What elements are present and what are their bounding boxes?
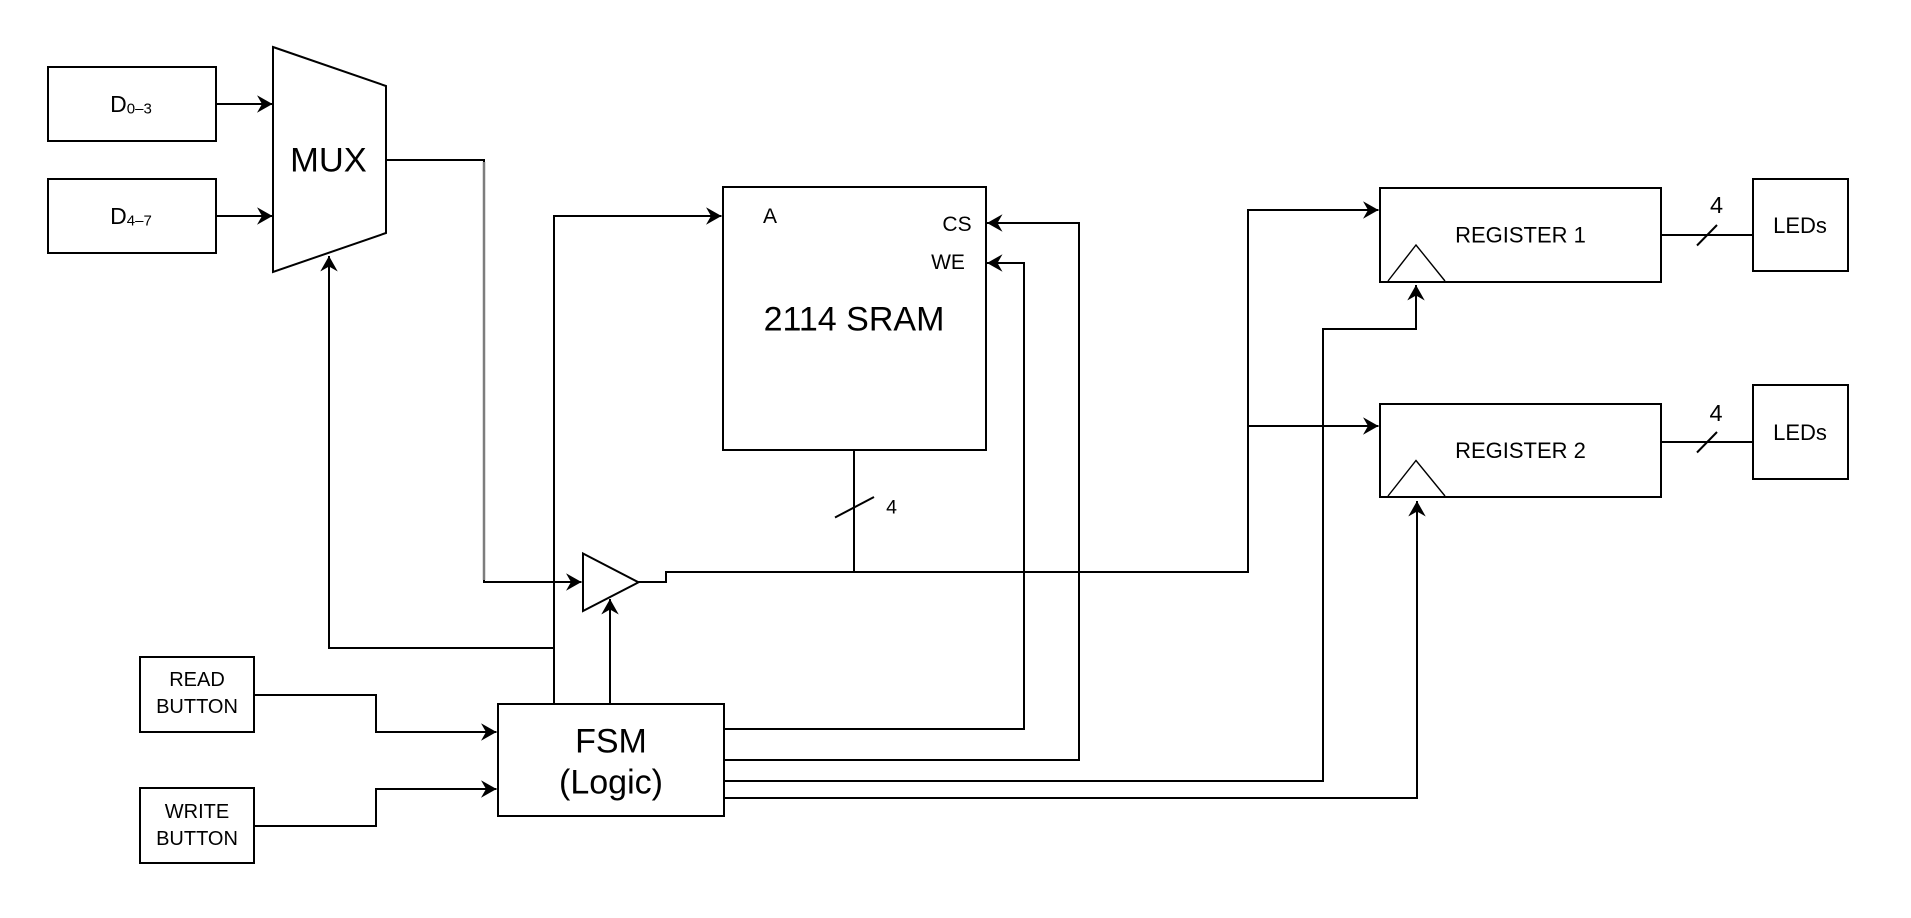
box LEDs (bottom) xyxy=(1753,385,1848,479)
wire data bus branch to REGISTER 2 xyxy=(1248,425,1379,427)
bus width slash on REGISTER 2 LED wire xyxy=(1697,432,1717,453)
svg-text:MUX: MUX xyxy=(290,142,367,180)
box LEDs (top) xyxy=(1753,179,1848,271)
wire MUX select (from FSM address line) xyxy=(329,256,554,648)
svg-text:A: A xyxy=(763,205,777,228)
box FSM (Logic) xyxy=(498,704,724,816)
wire REGISTER 1 to LEDs xyxy=(1661,234,1753,236)
svg-text:BUTTON: BUTTON xyxy=(156,828,238,850)
svg-text:CS: CS xyxy=(942,213,971,236)
svg-text:WRITE: WRITE xyxy=(165,801,229,823)
wire D0-3 to MUX xyxy=(216,103,273,105)
register REGISTER 2 xyxy=(1380,404,1661,497)
box D0-3 xyxy=(48,67,216,141)
bus width slash on SRAM data wire xyxy=(835,497,874,518)
wire REGISTER 2 to LEDs xyxy=(1661,441,1753,443)
svg-text:LEDs: LEDs xyxy=(1773,213,1827,238)
wire FSM to REGISTER 2 clock xyxy=(724,501,1417,798)
wire READ BUTTON to FSM xyxy=(254,695,497,732)
svg-text:4: 4 xyxy=(886,497,897,519)
svg-text:REGISTER 2: REGISTER 2 xyxy=(1455,438,1586,463)
wire FSM to REGISTER 1 clock xyxy=(724,285,1416,781)
box WRITE BUTTON xyxy=(140,788,254,863)
wire WRITE BUTTON to FSM xyxy=(254,789,497,826)
wire FSM to SRAM address A xyxy=(554,216,722,704)
gray vertical segment of MUX output wire xyxy=(483,162,486,580)
register REGISTER 1 xyxy=(1380,188,1661,282)
box D4-7 xyxy=(48,179,216,253)
svg-text:(Logic): (Logic) xyxy=(559,764,663,802)
bus width slash on REGISTER 1 LED wire xyxy=(1697,225,1717,246)
tri-state buffer U1 xyxy=(583,554,639,612)
box READ BUTTON xyxy=(140,657,254,732)
wire D4-7 to MUX xyxy=(216,215,273,217)
svg-text:FSM: FSM xyxy=(575,723,647,761)
wire FSM to SRAM WE xyxy=(724,263,1024,729)
wire MUX output to buffer input xyxy=(386,160,582,582)
svg-text:4: 4 xyxy=(1710,192,1723,218)
wire FSM to buffer enable xyxy=(609,599,611,704)
svg-text:READ: READ xyxy=(169,669,225,691)
svg-text:REGISTER 1: REGISTER 1 xyxy=(1455,223,1586,248)
svg-text:LEDs: LEDs xyxy=(1773,420,1827,445)
svg-text:WE: WE xyxy=(931,251,965,274)
svg-text:4: 4 xyxy=(1709,400,1722,426)
svg-text:2114 SRAM: 2114 SRAM xyxy=(764,301,945,339)
multiplexer MUX xyxy=(273,47,386,272)
wire FSM to SRAM CS xyxy=(724,223,1079,760)
memory 2114 SRAM xyxy=(723,187,986,450)
clock input triangle of REGISTER 2 xyxy=(1388,461,1445,497)
clock input triangle of REGISTER 1 xyxy=(1388,245,1445,281)
wire buffer output data bus to REGISTER 1 xyxy=(639,210,1379,582)
wire SRAM data to bus xyxy=(853,450,855,572)
svg-text:BUTTON: BUTTON xyxy=(156,696,238,718)
